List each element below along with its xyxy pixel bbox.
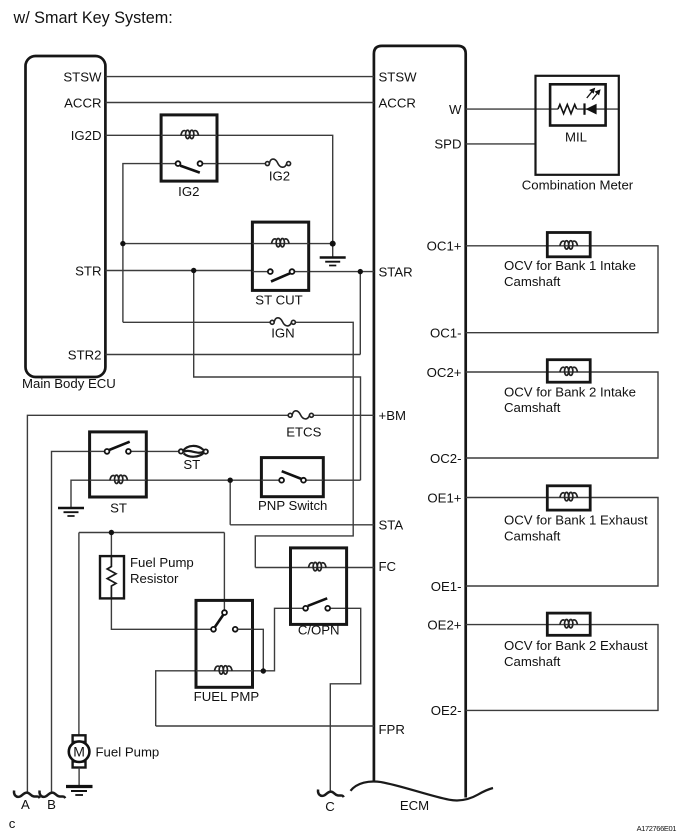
relay FUEL PMP box bbox=[196, 600, 253, 687]
svg-text:OC2+: OC2+ bbox=[427, 365, 462, 380]
svg-text:A: A bbox=[21, 797, 30, 812]
wire: feed node down to FUEL PMP relay common contact bbox=[223, 533, 225, 611]
svg-text:ACCR: ACCR bbox=[379, 95, 416, 110]
relay ST CUT coil bbox=[252, 239, 308, 247]
wire: FUEL PMP coil right up to C/OPN switch left bbox=[253, 608, 304, 671]
wire: ST relay switch left down to connector B bbox=[52, 451, 90, 793]
relay FUEL PMP coil bbox=[196, 666, 253, 674]
LED diode in MIL bbox=[585, 103, 597, 114]
wire STR: Main Body ECU to ST CUT switch bbox=[105, 270, 252, 272]
svg-text:A172766E01: A172766E01 bbox=[637, 824, 677, 833]
svg-text:OCV for Bank 1 Intake: OCV for Bank 1 Intake bbox=[504, 258, 636, 273]
wire: IG2 relay coil to ground junction bbox=[217, 135, 333, 243]
junction dot: STR branch bbox=[191, 268, 196, 273]
svg-text:OC2-: OC2- bbox=[430, 451, 462, 466]
svg-text:ACCR: ACCR bbox=[64, 95, 101, 110]
wire loop OCV3: OE1+ to OE1- bbox=[466, 498, 658, 587]
relay ST CUT box bbox=[252, 222, 308, 290]
svg-text:Main Body ECU: Main Body ECU bbox=[22, 376, 116, 391]
svg-text:IG2: IG2 bbox=[269, 169, 290, 184]
svg-text:+BM: +BM bbox=[379, 408, 406, 423]
svg-text:ETCS: ETCS bbox=[286, 425, 321, 440]
svg-text:IG2D: IG2D bbox=[71, 128, 102, 143]
wire: STA branch down from ST coil line bbox=[229, 480, 231, 525]
wire W: ECM to combination meter (left of MIL resistor) bbox=[466, 108, 558, 110]
resistor in MIL bbox=[558, 105, 577, 114]
wire: IG2 relay switch left, down to ST CUT coil and IGN fuse bbox=[123, 164, 161, 323]
relay ST switch bbox=[90, 442, 147, 454]
fuse IGN bbox=[270, 318, 295, 326]
svg-text:STSW: STSW bbox=[379, 69, 418, 84]
fuse ETCS bbox=[288, 411, 313, 419]
relay IG2 box bbox=[161, 115, 217, 181]
junction dot: STAR / STR2 branch bbox=[358, 269, 363, 274]
wire loop OCV4: OE2+ to OE2- bbox=[466, 625, 658, 711]
ground at ST CUT coil bbox=[320, 258, 346, 266]
wire: fuel pump resistor bottom to FUEL PMP switch left bbox=[111, 598, 211, 629]
ECM bottom break wave bbox=[351, 781, 494, 800]
junction dot: fuel pump resistor node bbox=[109, 530, 114, 535]
svg-text:MIL: MIL bbox=[565, 130, 587, 145]
relay C/OPN switch bbox=[303, 598, 330, 610]
wire: feed node down to fuel pump motor bbox=[78, 533, 80, 737]
wire STA: to ECM bbox=[230, 524, 374, 526]
wire: C/OPN coil line to ECM FC bbox=[255, 567, 374, 569]
wire W: MIL resistor to diode and meter right edge bbox=[577, 108, 619, 110]
wire: ST CUT coil left bbox=[123, 243, 253, 245]
svg-text:Fuel Pump: Fuel Pump bbox=[130, 555, 194, 570]
svg-text:ST: ST bbox=[110, 501, 127, 516]
MIL indicator box bbox=[550, 84, 606, 125]
wire: ST relay coil right to PNP switch bbox=[146, 479, 261, 481]
svg-text:OCV for Bank 1 Exhaust: OCV for Bank 1 Exhaust bbox=[504, 513, 648, 528]
wire: ST CUT switch right to ECM STAR bbox=[309, 271, 374, 273]
junction dot: coil ground node bbox=[330, 241, 336, 247]
Main Body ECU box U1 bbox=[26, 56, 106, 377]
OCV3 coil bbox=[560, 492, 578, 500]
svg-text:OE1+: OE1+ bbox=[427, 490, 461, 505]
fusible link ST bbox=[179, 446, 208, 457]
svg-text:Resistor: Resistor bbox=[130, 571, 179, 586]
OCV3 solenoid box (Bank 1 Exhaust) bbox=[547, 486, 590, 510]
OCV1 solenoid box (Bank 1 Intake) bbox=[547, 233, 590, 257]
relay IG2 coil bbox=[161, 130, 217, 138]
LED arrows bbox=[587, 89, 600, 100]
svg-text:M: M bbox=[73, 744, 85, 760]
wire: fuel pump feed node line bbox=[79, 532, 225, 534]
wire: ST relay coil left to ground bbox=[71, 480, 90, 507]
svg-text:STSW: STSW bbox=[63, 69, 102, 84]
svg-text:OC1+: OC1+ bbox=[427, 239, 462, 254]
wire: ground stem at ST CUT bbox=[332, 244, 334, 257]
wire SPD: ECM to combination meter bbox=[466, 143, 536, 145]
wire: STAR branch down to STR2 bbox=[359, 272, 361, 355]
relay ST coil bbox=[90, 475, 147, 483]
PNP Switch box bbox=[261, 458, 323, 497]
svg-text:STA: STA bbox=[379, 518, 404, 533]
ground at ST relay coil bbox=[58, 508, 84, 516]
svg-text:IG2: IG2 bbox=[178, 184, 199, 199]
svg-text:IGN: IGN bbox=[271, 325, 294, 340]
relay ST box bbox=[90, 432, 147, 497]
svg-text:B: B bbox=[47, 797, 56, 812]
wire: IGN fuse line left bbox=[123, 321, 271, 323]
svg-text:ECM: ECM bbox=[400, 798, 429, 813]
svg-text:Fuel Pump: Fuel Pump bbox=[96, 745, 160, 760]
OCV4 coil bbox=[560, 620, 578, 628]
svg-text:FPR: FPR bbox=[379, 722, 405, 737]
svg-text:Camshaft: Camshaft bbox=[504, 400, 561, 415]
svg-text:OE1-: OE1- bbox=[431, 579, 462, 594]
wire: ETCS fuse to ECM +BM bbox=[313, 414, 374, 416]
svg-text:STR: STR bbox=[75, 263, 101, 278]
wires group bbox=[27, 77, 658, 793]
OCV4 solenoid box (Bank 2 Exhaust) bbox=[547, 613, 590, 635]
wire: ST CUT coil right to ground junction bbox=[309, 243, 333, 245]
svg-text:C: C bbox=[325, 799, 335, 814]
wire STR2: Main Body ECU to STAR branch bbox=[105, 354, 360, 356]
junction dot: FUEL PMP coil / switch right bbox=[261, 668, 266, 673]
svg-text:OC1-: OC1- bbox=[430, 326, 462, 341]
svg-text:SPD: SPD bbox=[434, 137, 461, 152]
svg-text:W: W bbox=[449, 102, 462, 117]
fuse IG2 bbox=[265, 159, 290, 167]
svg-text:Camshaft: Camshaft bbox=[504, 654, 561, 669]
ECM box U2 (open bottom with break wave) bbox=[374, 46, 466, 798]
svg-text:c: c bbox=[9, 816, 16, 831]
wire: IGN fuse to C/OPN coil line (down, left, down) bbox=[255, 322, 353, 567]
svg-text:C/OPN: C/OPN bbox=[298, 623, 340, 638]
OCV1 coil bbox=[560, 241, 578, 249]
svg-text:ST: ST bbox=[183, 457, 200, 472]
wire: IG2 relay switch right to fuse IG2 bbox=[217, 163, 268, 165]
wire IG2D: Main Body ECU to IG2 relay coil bbox=[105, 134, 161, 136]
Fuel Pump Resistor zigzag bbox=[107, 556, 116, 598]
svg-text:FC: FC bbox=[379, 559, 397, 574]
relay ST CUT switch bbox=[252, 269, 308, 281]
svg-text:OCV for Bank 2 Exhaust: OCV for Bank 2 Exhaust bbox=[504, 638, 648, 653]
relay FUEL PMP switch (changeover) bbox=[211, 610, 252, 632]
wire: FUEL PMP switch right down to coil junction bbox=[238, 629, 264, 671]
connector B break bbox=[40, 791, 66, 799]
wire +BM: connector A riser bbox=[27, 415, 288, 793]
svg-text:Camshaft: Camshaft bbox=[504, 529, 561, 544]
junction dot: IG2 switch / ST CUT coil bbox=[120, 241, 125, 246]
svg-text:ST CUT: ST CUT bbox=[255, 292, 302, 307]
ground below Fuel Pump motor bbox=[66, 787, 93, 796]
svg-text:STR2: STR2 bbox=[68, 347, 102, 362]
wire: motor to ground bbox=[78, 768, 80, 786]
svg-text:OCV for Bank 2 Intake: OCV for Bank 2 Intake bbox=[504, 385, 636, 400]
wire: feed node down into fuel pump resistor bbox=[110, 533, 112, 557]
wire: STR branch down, right, down to PNP switch bbox=[194, 271, 361, 481]
wire ACCR: Main Body ECU to ECM bbox=[105, 102, 374, 104]
relay C/OPN box bbox=[291, 548, 347, 625]
connector C break bbox=[318, 790, 344, 798]
Fuel Pump motor M1 bbox=[69, 735, 90, 767]
wire: FUEL PMP coil left down to FPR line bbox=[156, 671, 196, 726]
junction dot: ST coil / STA branch bbox=[228, 478, 233, 483]
OCV2 solenoid box (Bank 2 Intake) bbox=[547, 360, 590, 383]
svg-text:STAR: STAR bbox=[379, 264, 413, 279]
wire FPR: to ECM bbox=[156, 725, 374, 727]
relay C/OPN coil bbox=[309, 562, 327, 570]
wire: ST relay switch right to fusible link ST bbox=[146, 450, 181, 452]
svg-text:PNP Switch: PNP Switch bbox=[258, 498, 327, 513]
Combination Meter box bbox=[536, 76, 619, 175]
wire: C/OPN switch right down to connector C bbox=[330, 608, 361, 792]
wire loop OCV1: OC1+ to OC1- bbox=[466, 246, 658, 333]
wire STSW: Main Body ECU to ECM bbox=[105, 76, 374, 78]
svg-text:Camshaft: Camshaft bbox=[504, 274, 561, 289]
OCV2 coil bbox=[560, 367, 578, 375]
wire: PNP switch right to STR branch bbox=[323, 479, 360, 481]
svg-text:OE2-: OE2- bbox=[431, 703, 462, 718]
connector A break bbox=[14, 791, 40, 799]
svg-text:w/ Smart Key System:: w/ Smart Key System: bbox=[13, 9, 173, 27]
relay IG2 switch bbox=[161, 161, 217, 172]
svg-text:Combination Meter: Combination Meter bbox=[522, 178, 634, 193]
wire loop OCV2: OC2+ to OC2- bbox=[466, 372, 658, 458]
svg-text:FUEL PMP: FUEL PMP bbox=[194, 689, 260, 704]
Fuel Pump Resistor R1 box bbox=[100, 556, 124, 598]
PNP Switch contacts bbox=[261, 471, 323, 482]
svg-text:OE2+: OE2+ bbox=[427, 617, 461, 632]
